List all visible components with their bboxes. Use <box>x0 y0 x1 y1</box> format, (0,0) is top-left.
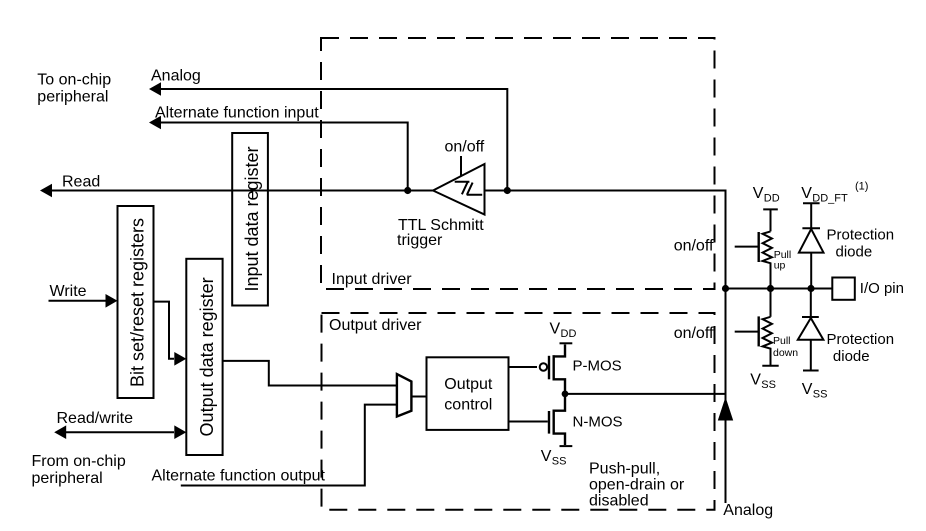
svg-text:up: up <box>774 260 786 272</box>
svg-text:open-drain or: open-drain or <box>589 477 685 494</box>
svg-text:V: V <box>753 185 764 202</box>
svg-text:on/off: on/off <box>445 139 485 156</box>
svg-text:Output driver: Output driver <box>329 317 422 334</box>
svg-text:N-MOS: N-MOS <box>573 414 623 431</box>
svg-text:down: down <box>773 347 798 359</box>
svg-text:V: V <box>802 381 813 398</box>
svg-text:Write: Write <box>50 283 87 300</box>
svg-text:DD_FT: DD_FT <box>812 193 848 205</box>
svg-text:diode: diode <box>833 348 870 365</box>
svg-text:on/off: on/off <box>674 237 714 254</box>
svg-text:Bit set/reset registers: Bit set/reset registers <box>128 218 148 387</box>
svg-text:Read: Read <box>62 174 100 191</box>
svg-text:V: V <box>550 321 561 338</box>
svg-text:trigger: trigger <box>397 232 443 249</box>
svg-text:Analog: Analog <box>151 68 201 85</box>
svg-text:Protection: Protection <box>827 227 895 244</box>
svg-text:SS: SS <box>813 389 828 401</box>
svg-text:DD: DD <box>764 193 780 205</box>
svg-text:Pull: Pull <box>773 335 791 347</box>
svg-text:Alternate function input: Alternate function input <box>155 105 319 122</box>
svg-text:Input data register: Input data register <box>242 146 262 291</box>
svg-text:SS: SS <box>552 456 567 468</box>
svg-text:(1): (1) <box>855 181 868 193</box>
svg-text:Read/write: Read/write <box>57 410 134 427</box>
svg-text:Input driver: Input driver <box>332 271 413 288</box>
svg-text:Output: Output <box>444 376 493 393</box>
svg-text:To on-chip: To on-chip <box>37 72 111 89</box>
svg-text:Protection: Protection <box>827 331 895 348</box>
svg-text:V: V <box>801 185 812 202</box>
svg-text:Alternate function output: Alternate function output <box>152 468 326 485</box>
svg-text:on/off: on/off <box>674 325 714 342</box>
svg-text:Push-pull,: Push-pull, <box>589 461 660 478</box>
svg-text:diode: diode <box>836 244 873 261</box>
svg-text:disabled: disabled <box>589 493 649 510</box>
svg-text:From on-chip: From on-chip <box>32 453 126 470</box>
svg-text:I/O pin: I/O pin <box>860 280 904 297</box>
svg-text:P-MOS: P-MOS <box>573 358 622 375</box>
svg-text:V: V <box>750 372 761 389</box>
svg-text:Output data register: Output data register <box>197 277 217 436</box>
svg-text:control: control <box>444 396 492 413</box>
svg-text:SS: SS <box>761 379 776 391</box>
svg-text:DD: DD <box>561 328 577 340</box>
svg-text:V: V <box>541 448 552 465</box>
svg-text:peripheral: peripheral <box>37 89 108 106</box>
svg-text:peripheral: peripheral <box>32 470 103 487</box>
svg-text:Analog: Analog <box>723 502 773 519</box>
